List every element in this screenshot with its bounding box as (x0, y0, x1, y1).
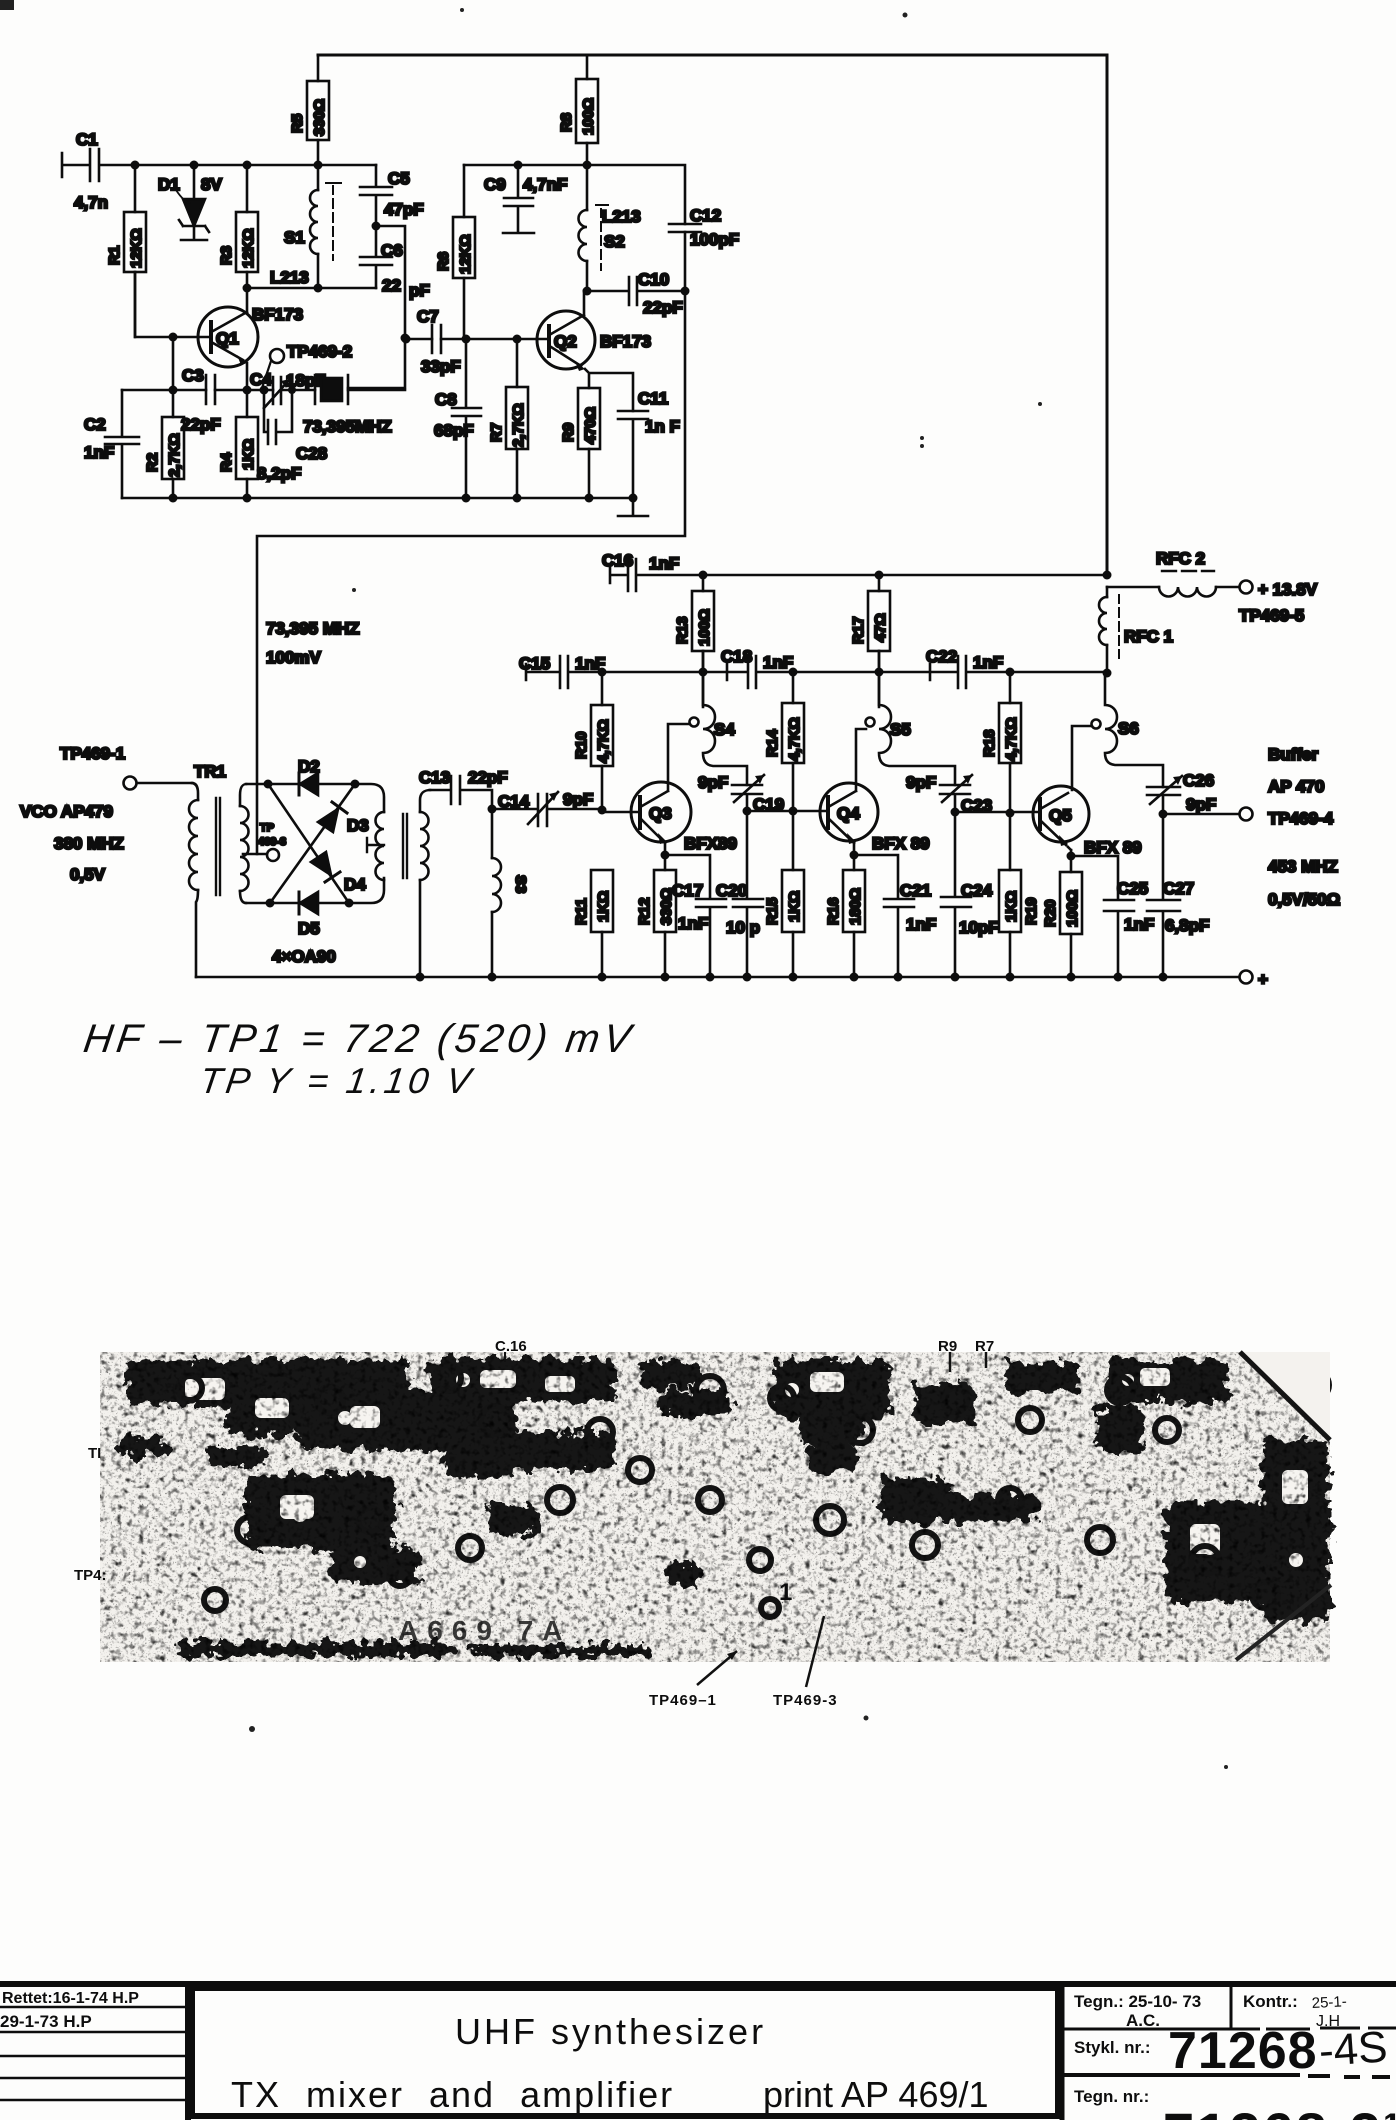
diode ring bottom edge (246, 878, 384, 903)
svg-text:C2: C2 (84, 415, 106, 434)
svg-text:S5: S5 (890, 720, 911, 739)
svg-text:25-1-: 25-1- (1311, 1993, 1347, 2012)
label buffer output (1268, 745, 1340, 909)
svg-text:C10: C10 (638, 270, 669, 289)
svg-text:R4: R4 (218, 452, 235, 472)
coupling coil S5 (866, 651, 956, 785)
svg-text:1nF: 1nF (973, 653, 1003, 672)
crystal X1 73,395MHZ (303, 375, 392, 436)
wire top supply rail (318, 55, 1107, 575)
svg-text:6,8pF: 6,8pF (1165, 916, 1209, 935)
svg-text:1: 1 (779, 1579, 792, 1606)
resistor R9 470Ω (560, 388, 600, 498)
resistor R15 1KΩ (764, 811, 804, 977)
svg-text:22pF: 22pF (181, 415, 221, 434)
svg-text:8V: 8V (201, 175, 222, 194)
label R9 (938, 1338, 957, 1372)
svg-text:73,395 MHZ: 73,395 MHZ (266, 619, 360, 638)
capacitor C21 1nF (850, 851, 937, 978)
svg-text:9pF: 9pF (698, 773, 728, 792)
svg-text:AP 470: AP 470 (1268, 777, 1324, 796)
wire amp ground rail (196, 976, 1239, 979)
PCB photograph block (100, 1352, 1331, 1662)
svg-text:73,395MHZ: 73,395MHZ (303, 417, 392, 436)
svg-text:C4: C4 (250, 370, 272, 389)
svg-text:BFX 89: BFX 89 (1084, 838, 1142, 857)
svg-text:1nF: 1nF (84, 443, 114, 462)
resistor R19 1KΩ (999, 813, 1040, 977)
svg-text:RFC 1: RFC 1 (1124, 627, 1173, 646)
resistor R7 2,7KΩ (488, 339, 528, 498)
test point TP469-2 (262, 342, 352, 388)
resistor R12 330Ω (636, 855, 676, 977)
svg-text:R17: R17 (850, 616, 867, 644)
svg-text:C11: C11 (638, 389, 668, 408)
capacitor C6 22pF (360, 226, 430, 300)
svg-text:D1: D1 (158, 175, 180, 194)
diode D5 (298, 892, 320, 938)
svg-text:TP469-4: TP469-4 (1268, 809, 1334, 828)
coupling coil S4 (690, 651, 748, 785)
inductor S3 (492, 809, 529, 977)
svg-text:Q1: Q1 (216, 329, 239, 348)
capacitor C3 22pF (181, 366, 221, 434)
svg-text:1nF: 1nF (906, 915, 936, 934)
svg-text:C15: C15 (519, 654, 550, 673)
choke RFC2 (1107, 549, 1239, 597)
svg-text:71268: 71268 (1168, 2022, 1318, 2080)
diode D4 on diagonal (268, 784, 366, 903)
svg-text:R18: R18 (981, 729, 998, 757)
svg-text:C8: C8 (435, 390, 457, 409)
diode D2 (298, 757, 320, 795)
wire base-to-feedback link (172, 337, 175, 390)
svg-text:12KΩ: 12KΩ (128, 228, 145, 268)
svg-text:S2: S2 (604, 232, 625, 251)
coupling coil S6 (1092, 673, 1164, 787)
svg-text:L213: L213 (602, 207, 641, 226)
svg-text:2,7KΩ: 2,7KΩ (166, 433, 183, 477)
svg-text:R13: R13 (674, 616, 691, 644)
transistor Q1 BF173 (198, 288, 303, 390)
test point TP469-3 (243, 822, 286, 861)
capacitor C12 100pF (669, 206, 739, 249)
svg-text:1nF: 1nF (649, 554, 679, 573)
svg-text:68pF: 68pF (434, 421, 474, 440)
svg-text:+: + (1258, 970, 1268, 989)
svg-text:C22: C22 (926, 647, 957, 666)
svg-text:0,5V/50Ω: 0,5V/50Ω (1268, 890, 1340, 909)
svg-text:12KΩ: 12KΩ (240, 228, 257, 268)
label TP469-3 with leader (773, 1616, 838, 1709)
svg-text:R20: R20 (1042, 899, 1059, 927)
svg-text:R3: R3 (218, 246, 235, 265)
svg-text:TP: TP (260, 822, 274, 834)
svg-text:S6: S6 (1118, 719, 1139, 738)
capacitor C2 1nF (84, 390, 139, 498)
svg-text:R15: R15 (764, 897, 781, 925)
wire Q2 base (405, 338, 549, 341)
label R7 (975, 1338, 994, 1368)
svg-text:TR1: TR1 (194, 762, 226, 781)
resistor R8 100Ω (558, 55, 598, 165)
svg-text:R9: R9 (560, 423, 577, 442)
svg-text:330Ω: 330Ω (311, 99, 328, 136)
svg-text:4,7KΩ: 4,7KΩ (786, 717, 803, 761)
svg-text:L213: L213 (270, 268, 309, 287)
resistor R18 4,7KΩ (981, 672, 1021, 813)
svg-text:4×OA90: 4×OA90 (272, 947, 336, 966)
resistor R13 100Ω (674, 575, 714, 707)
transistor Q5 BFX89 (1033, 726, 1142, 857)
wire Q2 supply rail (257, 165, 685, 854)
svg-text:S3: S3 (512, 875, 529, 893)
trimmer C23 9pF (906, 773, 992, 815)
wire tank bottom (245, 287, 376, 290)
capacitor C13 22pF (419, 768, 508, 809)
svg-text:BF173: BF173 (600, 332, 651, 351)
svg-text:+ 13.8V: + 13.8V (1258, 580, 1318, 599)
terminal TP469-1 (20, 744, 192, 884)
svg-text:100Ω: 100Ω (1064, 890, 1081, 927)
handwritten note line 1 (75, 1016, 637, 1101)
terminal ground + (1240, 970, 1269, 989)
svg-text:9pF: 9pF (1186, 795, 1216, 814)
wire Q1 base (135, 272, 211, 337)
svg-text:-4S: -4S (1317, 2022, 1389, 2076)
capacitor C24 10pF (941, 812, 999, 977)
svg-text:Rettet:16-1-74 H.P: Rettet:16-1-74 H.P (2, 1990, 139, 2007)
svg-text:C13: C13 (419, 768, 450, 787)
wire Q5 base (955, 811, 1040, 814)
svg-text:C12: C12 (690, 206, 721, 225)
resistor R20 100Ω (1042, 856, 1082, 977)
svg-text:TP469-3: TP469-3 (773, 1692, 838, 1709)
svg-text:1nF: 1nF (1124, 915, 1154, 934)
svg-text:A669 7A: A669 7A (398, 1615, 572, 1646)
inductor S2 L213 (579, 165, 641, 291)
capacitor C1 4,7n (62, 130, 376, 212)
capacitor C16 1nF (602, 551, 1107, 591)
stray scan marks (0, 0, 1228, 1769)
svg-text:BF173: BF173 (252, 305, 303, 324)
diode ring top edge (246, 784, 384, 812)
svg-text:R8: R8 (558, 113, 575, 132)
svg-text:1KΩ: 1KΩ (786, 891, 803, 922)
transformer T2 core (403, 814, 407, 878)
svg-text:R9: R9 (938, 1338, 957, 1355)
svg-text:Stykl. nr.:: Stykl. nr.: (1074, 2038, 1151, 2057)
transistor Q4 BFX89 (820, 729, 930, 855)
svg-text:C.16: C.16 (495, 1338, 527, 1355)
capacitor C28 8,2pF (257, 390, 327, 483)
capacitor C27 6,8pF (1147, 814, 1209, 977)
svg-text:1KΩ: 1KΩ (595, 891, 612, 922)
svg-text:D5: D5 (298, 919, 320, 938)
resistor R1 12KΩ (106, 165, 146, 337)
svg-text:47pF: 47pF (384, 200, 424, 219)
resistor R10 4,7KΩ (573, 672, 613, 812)
svg-text:R14: R14 (764, 729, 781, 757)
svg-text:47Ω: 47Ω (872, 613, 889, 642)
resistor R3 12KΩ (218, 165, 258, 288)
svg-text:Kontr.:: Kontr.: (1243, 1992, 1298, 2011)
transformer TR1 primary (189, 762, 226, 977)
svg-text:C18: C18 (721, 647, 752, 666)
svg-text:453 MHZ: 453 MHZ (1268, 857, 1338, 876)
svg-text:29-1-73 H.P: 29-1-73 H.P (0, 2012, 92, 2031)
svg-text:HF – TP1 = 722 (520) mV: HF – TP1 = 722 (520) mV (81, 1016, 638, 1061)
svg-text:Buffer: Buffer (1268, 745, 1318, 764)
svg-text:100mV: 100mV (266, 648, 321, 667)
svg-text:100pF: 100pF (690, 230, 739, 249)
svg-text:C24: C24 (961, 881, 993, 900)
svg-text:R5: R5 (289, 114, 306, 133)
svg-text:Tegn. nr.:: Tegn. nr.: (1074, 2087, 1149, 2106)
capacitor C20 10pF (716, 811, 763, 977)
svg-text:0,5V: 0,5V (70, 865, 106, 884)
resistor R5 330Ω (289, 55, 329, 165)
svg-text:1n F: 1n F (645, 417, 680, 436)
terminal +13.8V TP469-5 (1239, 580, 1318, 625)
transformer T2 ring-side winding (376, 812, 385, 880)
diode D3 on diagonal (270, 784, 369, 903)
svg-text:380 MHZ: 380 MHZ (54, 834, 124, 853)
svg-text:D3: D3 (347, 816, 369, 835)
svg-text:9pF: 9pF (906, 773, 936, 792)
capacitor C25 1nF (1067, 852, 1155, 978)
svg-text:S1: S1 (284, 228, 305, 247)
svg-text:TI: TI (88, 1445, 101, 1462)
resistor R16 180Ω (825, 855, 865, 977)
svg-text:Q3: Q3 (649, 804, 672, 823)
svg-text:C6: C6 (381, 241, 403, 260)
transformer T2 center tap (367, 838, 384, 852)
trimmer C19 9pF (698, 773, 784, 814)
svg-text:Tegn.: 25-10- 73: Tegn.: 25-10- 73 (1074, 1992, 1201, 2011)
svg-text:C9: C9 (484, 175, 506, 194)
capacitor C9 4,7nF (484, 165, 567, 233)
svg-text:R16: R16 (825, 897, 842, 925)
svg-text:RFC 2: RFC 2 (1156, 549, 1205, 568)
svg-text:1nF: 1nF (575, 654, 605, 673)
capacitor C11 1nF (618, 389, 680, 498)
svg-text:1KΩ: 1KΩ (1003, 891, 1020, 922)
resistor R4 1KΩ (218, 390, 258, 498)
svg-text:TP4:: TP4: (74, 1567, 107, 1584)
label C.16 (495, 1338, 527, 1362)
trimmer C14 9pF (492, 790, 602, 826)
svg-text:C26: C26 (1183, 771, 1214, 790)
svg-text:TP469-1: TP469-1 (60, 744, 125, 763)
svg-text:R2: R2 (144, 453, 161, 472)
svg-text:C1: C1 (76, 130, 98, 149)
svg-text:C27: C27 (1163, 879, 1194, 898)
svg-text:10pF: 10pF (959, 918, 999, 937)
trimmer C4 18pF (250, 370, 326, 408)
svg-text:1KΩ: 1KΩ (240, 439, 257, 470)
svg-text:9pF: 9pF (563, 790, 593, 809)
svg-text:D2: D2 (298, 757, 320, 776)
node mixer out (488, 805, 497, 814)
node C5/C6 junction (372, 222, 381, 231)
svg-text:8,2pF: 8,2pF (257, 464, 301, 483)
svg-text:C7: C7 (417, 307, 439, 326)
ground wire oscillator (122, 497, 633, 500)
svg-text:12KΩ: 12KΩ (457, 234, 474, 274)
svg-text:C20: C20 (716, 881, 747, 900)
svg-text:VCO AP479: VCO AP479 (20, 802, 113, 821)
wire Q4 base (747, 810, 828, 813)
svg-text:22pF: 22pF (643, 298, 683, 317)
svg-text:C17: C17 (672, 881, 703, 900)
inductor S1 L213 (270, 165, 341, 288)
svg-text:C21: C21 (900, 881, 931, 900)
svg-text:D4: D4 (344, 875, 366, 894)
svg-text:469-3: 469-3 (258, 836, 286, 848)
svg-text:1nF: 1nF (678, 914, 708, 933)
trimmer C26 9pF (1147, 771, 1216, 814)
capacitor C7 33pF (417, 307, 461, 376)
svg-text:4,7KΩ: 4,7KΩ (1003, 717, 1020, 761)
capacitor C17 1nF (661, 851, 727, 978)
svg-text:UHF synthesizer: UHF synthesizer (455, 2011, 766, 2052)
svg-text:print AP 469/1: print AP 469/1 (763, 2074, 989, 2115)
svg-text:R12: R12 (636, 897, 653, 925)
svg-text:R19: R19 (1023, 897, 1040, 925)
transformer TR1 secondary (240, 784, 249, 903)
svg-text:1nF: 1nF (763, 653, 793, 672)
svg-text:R7: R7 (975, 1338, 994, 1355)
node osc output label (266, 619, 360, 667)
resistor R6 12KΩ (435, 165, 475, 339)
wire feedback to C7/crystal (348, 226, 405, 388)
svg-text:C14: C14 (498, 792, 530, 811)
terminal output TP469-4 (1159, 808, 1253, 821)
wire bias rail y672 (526, 656, 1107, 688)
svg-text:4,7n: 4,7n (74, 193, 108, 212)
svg-text:R6: R6 (435, 252, 452, 271)
capacitor C10 22pF (583, 270, 686, 317)
zener diode D1 8V (158, 165, 222, 240)
svg-text:R7: R7 (488, 423, 505, 442)
svg-text:TX mixer and amplifier: TX mixer and amplifier (231, 2074, 674, 2115)
title block (0, 1984, 1396, 2120)
transformer T2 secondary (420, 790, 430, 977)
transistor Q3 BFX89 (631, 724, 737, 855)
svg-text:4,7nF: 4,7nF (523, 175, 567, 194)
svg-text:A.C.: A.C. (1126, 2011, 1160, 2030)
svg-text:C25: C25 (1117, 879, 1148, 898)
svg-text:22: 22 (382, 276, 401, 295)
svg-text:180Ω: 180Ω (847, 888, 864, 925)
svg-text:100Ω: 100Ω (696, 609, 713, 646)
svg-text:C16: C16 (602, 551, 633, 570)
svg-text:R10: R10 (573, 731, 590, 759)
svg-text:BFX89: BFX89 (684, 834, 737, 853)
svg-text:470Ω: 470Ω (582, 407, 599, 444)
svg-text:R1: R1 (106, 246, 123, 265)
svg-text:C3: C3 (182, 366, 204, 385)
svg-text:33pF: 33pF (421, 357, 461, 376)
svg-text:S4: S4 (714, 720, 735, 739)
transistor Q2 BF173 (537, 291, 651, 411)
svg-text:pF: pF (409, 281, 430, 300)
svg-text:C28: C28 (296, 444, 327, 463)
choke RFC1 (1099, 587, 1173, 673)
transformer TR1 core (216, 798, 220, 895)
svg-text:Q2: Q2 (554, 332, 577, 351)
svg-text:BFX 89: BFX 89 (872, 834, 930, 853)
resistor R2 2,7KΩ (144, 390, 184, 498)
resistor R17 47Ω (850, 575, 890, 707)
svg-text:TP469-5: TP469-5 (1239, 606, 1304, 625)
svg-text:R11: R11 (573, 898, 590, 925)
svg-text:Q4: Q4 (837, 804, 860, 823)
svg-text:71268-2½: 71268-2½ (1163, 2101, 1396, 2120)
svg-text:10 p: 10 p (726, 918, 760, 937)
ground symbol (618, 498, 648, 516)
label TP469-1 with leader (649, 1651, 737, 1709)
capacitor C5 47pF (360, 165, 424, 226)
capacitor C8 68pF (434, 339, 481, 498)
node dots left rail (131, 161, 323, 170)
svg-text:2,7KΩ: 2,7KΩ (510, 403, 527, 447)
svg-text:22pF: 22pF (468, 768, 508, 787)
svg-text:C5: C5 (388, 169, 410, 188)
svg-text:TP Y = 1.10 V: TP Y = 1.10 V (197, 1060, 477, 1101)
resistor R14 4,7KΩ (764, 672, 804, 811)
wire Q3 base (602, 811, 640, 814)
svg-text:Q5: Q5 (1049, 806, 1072, 825)
svg-text:4,7KΩ: 4,7KΩ (595, 719, 612, 763)
svg-text:TP469-2: TP469-2 (287, 342, 352, 361)
svg-text:TP469–1: TP469–1 (649, 1692, 717, 1709)
svg-text:100Ω: 100Ω (580, 98, 597, 135)
wire feedback bus y390 (122, 389, 405, 392)
resistor R11 1KΩ (573, 870, 613, 977)
